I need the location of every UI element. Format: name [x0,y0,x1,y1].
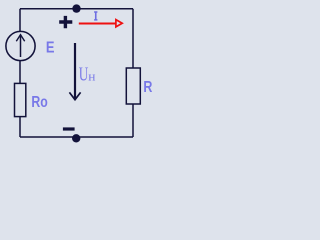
source E (circle) [6,31,35,60]
node dot top [72,4,80,12]
current arrow I (red) [79,22,116,24]
resistor R0 [15,83,26,116]
wire right upper [132,9,134,68]
svg-text:E: E [46,39,55,56]
minus sign [63,127,75,130]
arrow inside source [20,35,22,57]
wire right lower [132,104,134,137]
label I [94,12,97,20]
voltage arrow Uн [74,43,76,99]
svg-text:R: R [143,79,152,96]
svg-text:н: н [88,69,95,84]
wire left lower [19,117,21,137]
svg-text:Ro: Ro [31,94,48,111]
plus sign [59,16,72,28]
wire left upper [19,9,21,32]
wire top: node A to corners [20,8,133,10]
wire left middle [19,61,21,84]
wire bottom [20,136,133,138]
node dot bottom [72,134,80,142]
resistor R [126,68,140,104]
svg-text:U: U [79,64,89,86]
